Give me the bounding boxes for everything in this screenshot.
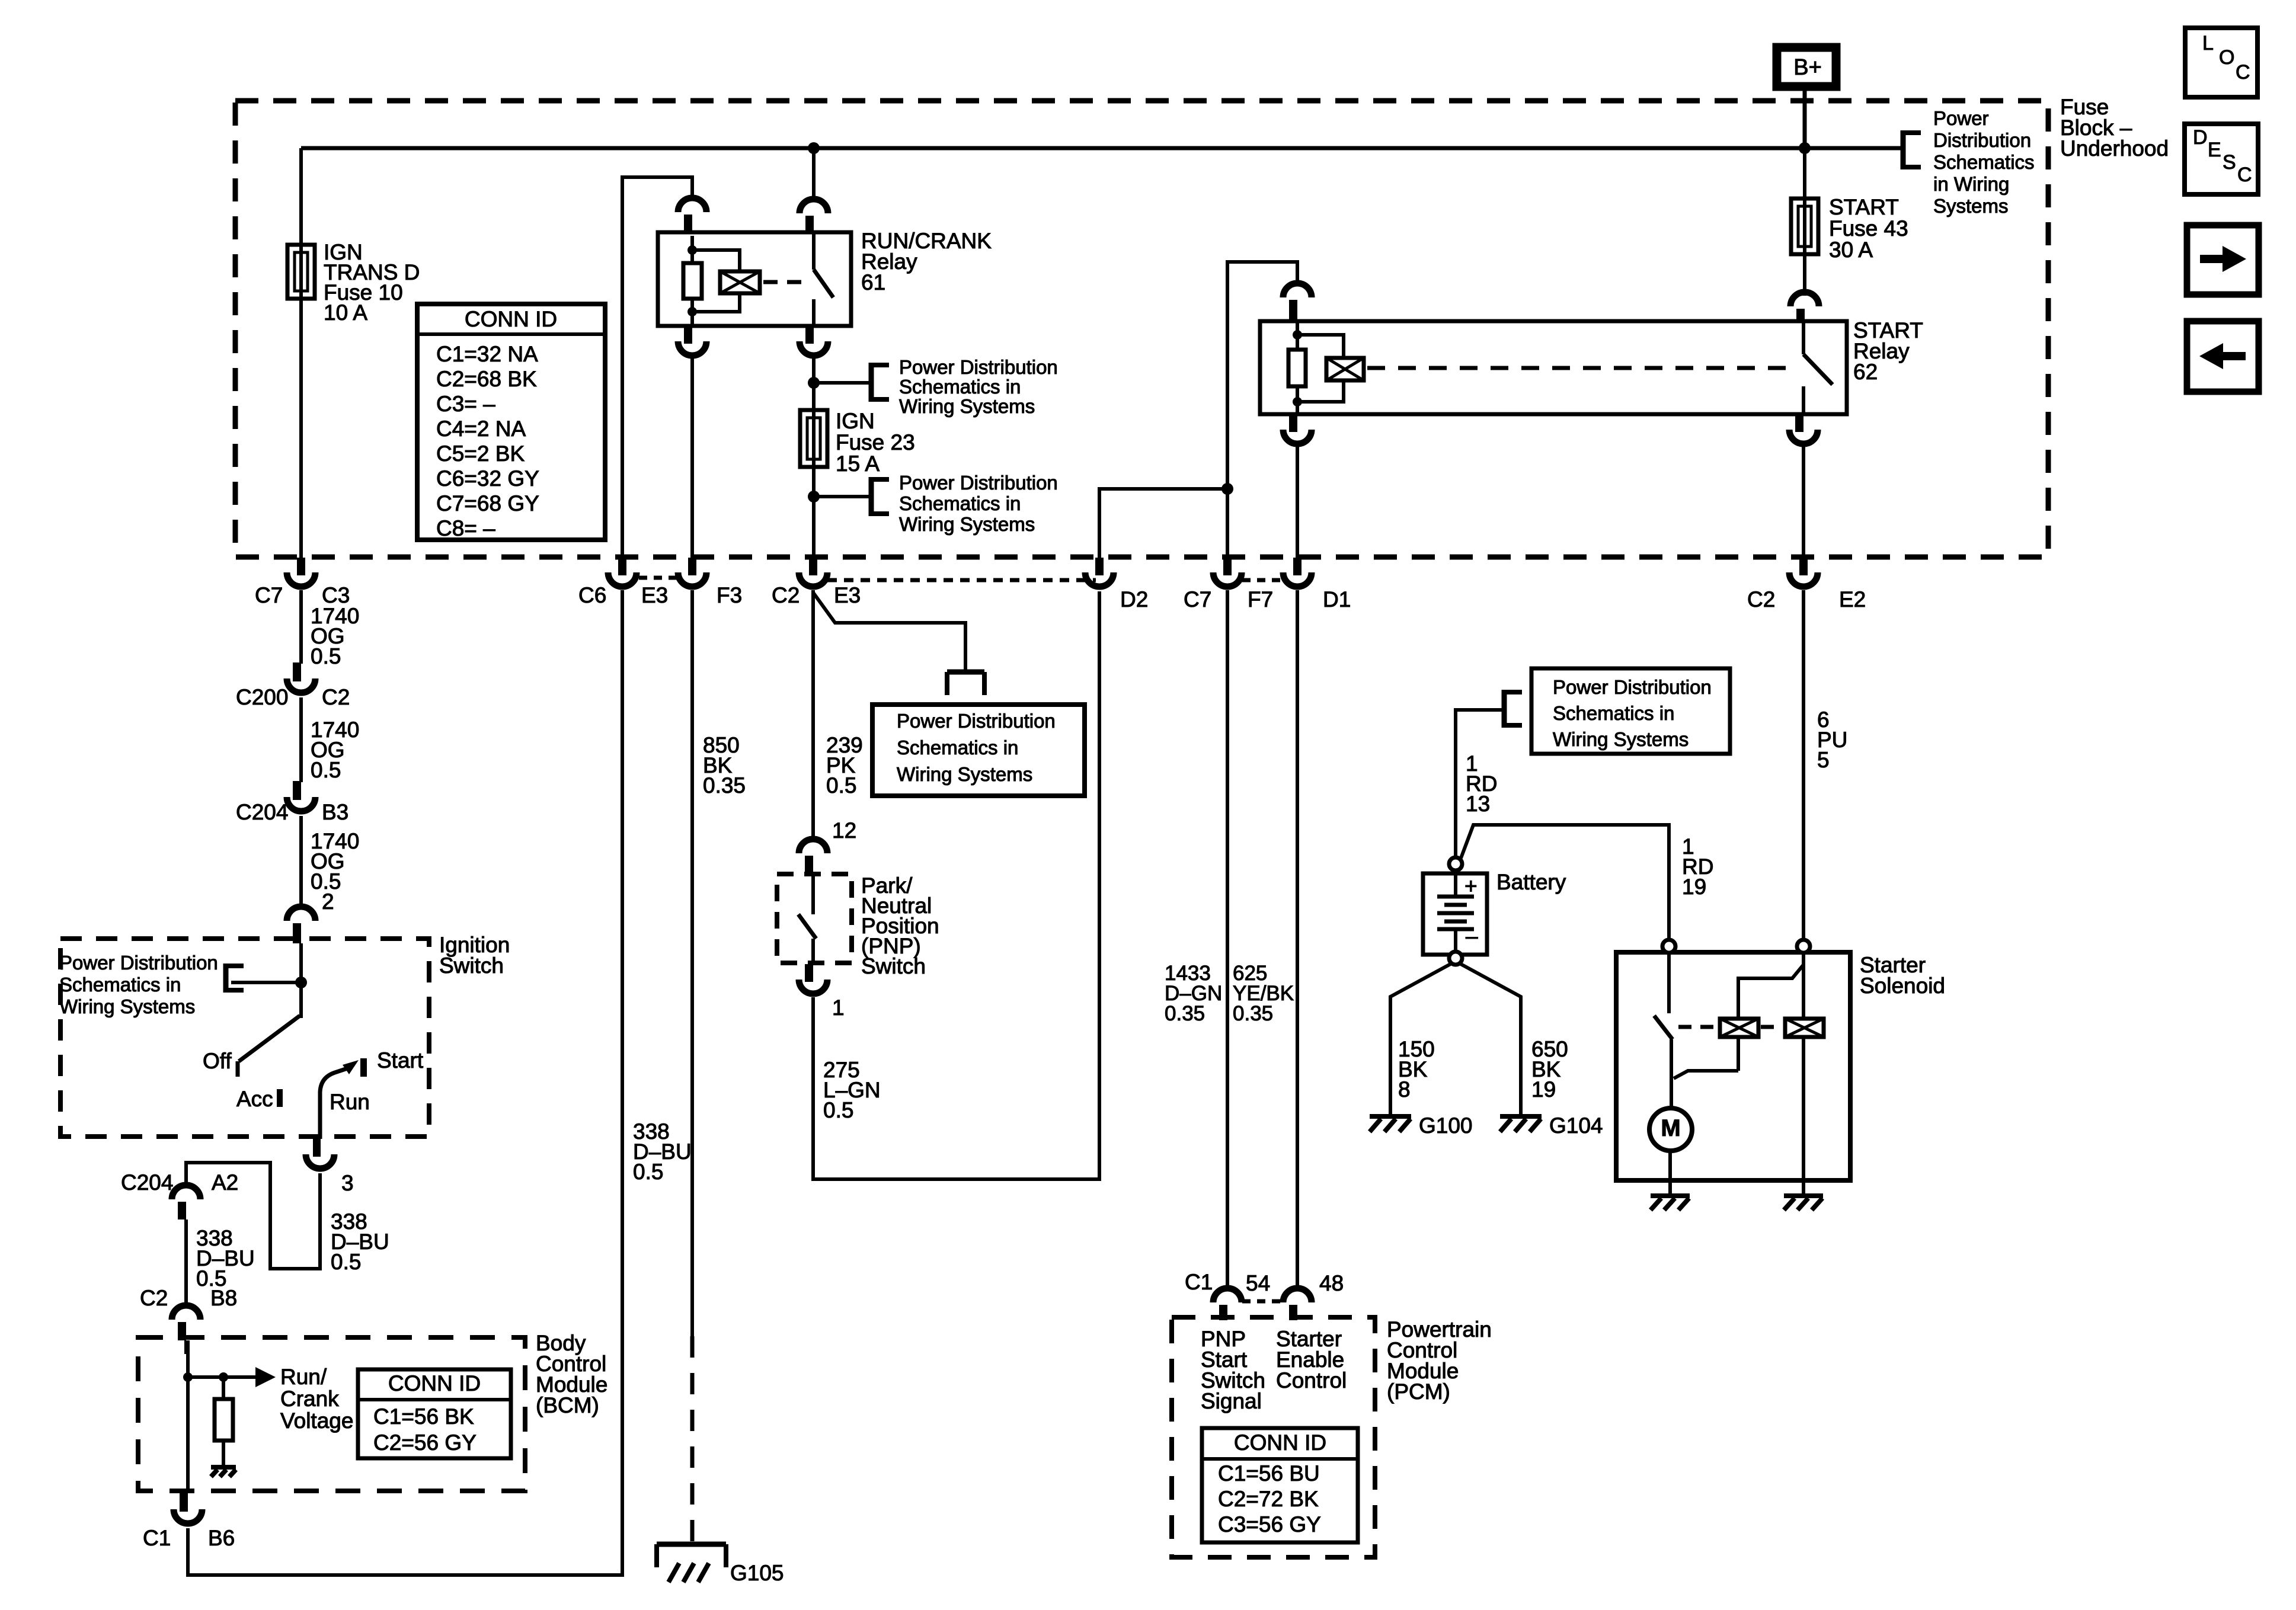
label Starter Enable Control [1276, 1327, 1347, 1393]
svg-text:Schematics in: Schematics in [1553, 702, 1674, 724]
label E3 (row) [641, 583, 668, 607]
ground splice bracket G105 [657, 1544, 726, 1567]
solenoid pull-in winding branch [1738, 965, 1803, 1019]
svg-text:B3: B3 [322, 800, 348, 824]
svg-text:54: 54 [1246, 1271, 1270, 1295]
label F3 (row) [717, 583, 742, 607]
svg-text:CONN ID: CONN ID [388, 1371, 481, 1395]
label 338 D-BU 0.5 (BCM return) [633, 1119, 692, 1184]
label Power Distribution Schematics in Wiring Systems (top right) [1933, 107, 2035, 217]
PNP switch dashed box [777, 874, 852, 963]
PNP switch contacts [798, 875, 816, 963]
label Start [377, 1048, 424, 1073]
connector relay 62 switch pin bottom [1789, 414, 1818, 444]
label Run/ Crank Voltage [280, 1365, 353, 1433]
svg-text:0.35: 0.35 [1165, 1002, 1205, 1025]
label Power Distribution Schematics in Wiring Systems (below fuse 23) [899, 472, 1058, 535]
solenoid switch lower contact link [1674, 1071, 1738, 1078]
label C2 (row 3) [1747, 587, 1775, 612]
label Acc [236, 1087, 273, 1111]
svg-text:Signal: Signal [1201, 1389, 1262, 1413]
svg-text:D1: D1 [1323, 587, 1351, 612]
svg-text:Power Distribution: Power Distribution [897, 710, 1056, 732]
svg-text:S: S [2223, 151, 2236, 174]
svg-text:Wiring Systems: Wiring Systems [1553, 728, 1689, 750]
connector C7/C3 at fuse block [287, 558, 315, 587]
svg-text:C2=72 BK: C2=72 BK [1218, 1487, 1319, 1511]
wire junction to bracket (above fuse 23) [814, 381, 871, 385]
svg-text:Wiring Systems: Wiring Systems [897, 763, 1032, 785]
svg-text:5: 5 [1817, 748, 1830, 772]
svg-text:Wiring Systems: Wiring Systems [59, 996, 195, 1017]
bracket reference Power Distribution (below fuse 23) [871, 477, 889, 516]
label E2 (row) [1839, 587, 1866, 612]
LOC reference box [2185, 28, 2257, 97]
svg-text:1: 1 [832, 996, 845, 1020]
battery box [1423, 873, 1487, 955]
wire C2/E3 to PNP switch [811, 590, 815, 841]
relay 61 coil [720, 271, 760, 293]
svg-text:0.5: 0.5 [823, 1098, 853, 1122]
body control module BCM dashed box [138, 1337, 525, 1491]
wire hook C7/F7 to relay 62 coil [1227, 262, 1297, 489]
connector relay 62 coil pin bottom [1283, 414, 1312, 444]
svg-text:48: 48 [1319, 1271, 1344, 1295]
svg-text:C1=56 BU: C1=56 BU [1218, 1461, 1320, 1486]
forward arrow box [2187, 225, 2259, 295]
svg-text:Fuse 23: Fuse 23 [836, 430, 915, 454]
relay 62 switch [1803, 321, 1833, 414]
wire hook to C6 [622, 177, 692, 558]
svg-text:0.5: 0.5 [633, 1160, 663, 1184]
svg-text:Control: Control [1276, 1368, 1347, 1393]
wire fuse 23 to connector C2 [812, 497, 816, 558]
label Power Distribution Schematics in Wiring Systems (ignition) [59, 952, 218, 1017]
svg-text:Schematics in: Schematics in [897, 737, 1018, 758]
label C3 (row) [322, 583, 350, 607]
connector C204/B3 [287, 781, 315, 811]
label C1 (BCM) [143, 1526, 171, 1550]
connector D1 at fuse block [1283, 558, 1312, 587]
label Park/Neutral Position (PNP) Switch [861, 873, 939, 978]
label Run [330, 1090, 370, 1114]
svg-text:B+: B+ [1793, 55, 1822, 80]
wire C7/F7 1433 D-GN to PCM [1226, 590, 1229, 1291]
relay 61 coil-to-switch dashed link [763, 280, 807, 284]
svg-text:D: D [2193, 126, 2208, 149]
svg-text:C1=56 BK: C1=56 BK [373, 1404, 474, 1429]
label C200 [236, 685, 288, 709]
relay 61 node bottom [687, 307, 697, 316]
connector relay 61 coil pin bottom [678, 326, 706, 356]
label 3 (ignition output) [341, 1171, 354, 1195]
relay 62 coil branch wires [1297, 335, 1344, 402]
label C6 (row) [578, 583, 606, 607]
wire bus to IGN TRANS D fuse [299, 148, 303, 246]
bracket reference Power Distribution (above fuse 23) [871, 363, 889, 402]
connector BCM C1/B6 [174, 1491, 202, 1523]
label G104 [1549, 1113, 1603, 1138]
node junction above fuse 23 [808, 377, 820, 389]
label 275 L-GN 0.5 [823, 1058, 881, 1122]
svg-text:E3: E3 [641, 583, 668, 607]
svg-text:O: O [2219, 46, 2234, 69]
svg-text:C5=2 BK: C5=2 BK [436, 441, 525, 466]
svg-text:C204: C204 [236, 800, 288, 824]
power bus wire [301, 146, 1904, 151]
wire relay 61 switch to fuse 23 [812, 356, 816, 410]
relay 61 switch [814, 233, 833, 326]
svg-text:Underhood: Underhood [2060, 136, 2169, 161]
svg-text:Schematics: Schematics [1933, 151, 2035, 173]
label Powertrain Control Module (PCM) [1387, 1317, 1492, 1404]
svg-text:0.5: 0.5 [826, 773, 856, 798]
relay 62 node top [1293, 330, 1302, 340]
label C7 (row) [255, 583, 283, 607]
svg-text:C2: C2 [772, 583, 800, 607]
svg-text:Off: Off [203, 1049, 232, 1073]
svg-text:(BCM): (BCM) [536, 1393, 599, 1417]
svg-text:C2: C2 [1747, 587, 1775, 612]
node junction ignition feed [295, 977, 307, 988]
ground below solenoid right [1784, 1196, 1823, 1210]
ignition Acc contact tick [277, 1089, 283, 1107]
connector C200/C2 [287, 662, 315, 693]
battery positive terminal [1449, 857, 1462, 870]
relay 61 node top [687, 245, 697, 255]
wire junction to connector C7/F7 [1226, 489, 1229, 558]
svg-text:Run/: Run/ [280, 1365, 327, 1389]
connector C7/F7 at fuse block [1213, 558, 1242, 587]
label START Relay 62 [1853, 318, 1923, 384]
fuse IGN TRANS D Fuse 10 [287, 245, 315, 299]
wire C7/C3 to C200 [299, 590, 303, 664]
connector PNP pin 12 [799, 839, 827, 875]
svg-text:Fuse 43: Fuse 43 [1829, 216, 1908, 241]
wire B+ to bus [1803, 91, 1807, 150]
dotted link PCM 54-48 [1242, 1299, 1281, 1304]
svg-text:Schematics in: Schematics in [59, 974, 181, 996]
B+ power symbol [1777, 47, 1836, 87]
connector ignition switch pin 3 [306, 1138, 334, 1169]
solenoid terminal stud left [1662, 940, 1675, 953]
node BCM junction 1 [183, 1372, 193, 1382]
svg-text:C7=68 GY: C7=68 GY [436, 491, 539, 516]
svg-text:2: 2 [322, 889, 334, 914]
label A2 [212, 1170, 238, 1195]
solenoid switch [1654, 953, 1673, 1108]
ground G105 hatch [669, 1563, 709, 1582]
solenoid pull-in winding [1720, 1019, 1758, 1037]
wire BCM internal feed [186, 1340, 190, 1491]
label Ignition Switch [439, 933, 510, 978]
svg-text:C: C [2236, 61, 2250, 84]
relay 62 node bottom [1293, 397, 1302, 406]
svg-text:C2=68 BK: C2=68 BK [436, 367, 537, 391]
svg-text:0.5: 0.5 [311, 758, 341, 782]
label 6 PU 5 [1817, 708, 1847, 772]
ground G104 [1500, 1116, 1542, 1132]
svg-text:62: 62 [1853, 360, 1878, 384]
connector relay 62 switch pin top [1790, 292, 1819, 322]
svg-text:3: 3 [341, 1171, 354, 1195]
label 850 BK 0.35 [703, 733, 746, 798]
svg-text:C7: C7 [255, 583, 283, 607]
wire relay 62 switch to E2 [1802, 444, 1805, 558]
label START Fuse 43 30A [1829, 195, 1908, 262]
CONN ID table (PCM) [1202, 1428, 1358, 1542]
label 48 [1319, 1271, 1344, 1295]
wire 275 L-GN PNP return to D2 [813, 591, 1099, 1179]
label 1 RD 13 [1466, 751, 1497, 816]
svg-text:in Wiring: in Wiring [1933, 173, 2009, 195]
svg-text:D2: D2 [1120, 587, 1148, 612]
ignition switch dashed box [60, 939, 429, 1137]
svg-text:C4=2 NA: C4=2 NA [436, 417, 526, 441]
label C204 (A2) [121, 1170, 173, 1195]
svg-text:(PCM): (PCM) [1387, 1379, 1450, 1404]
label F7 (row) [1248, 587, 1273, 612]
wire C2/E3 diagonal branch to reference box [813, 593, 965, 672]
Power Distribution Schematics in Wiring Systems box (battery area) [1531, 668, 1730, 754]
svg-text:C200: C200 [236, 685, 288, 709]
svg-text:B8: B8 [210, 1286, 237, 1310]
wire battery to bracket 1 RD 13 [1456, 710, 1504, 857]
label 650 BK 19 [1531, 1037, 1568, 1102]
svg-text:13: 13 [1466, 792, 1490, 816]
label D1 (row) [1323, 587, 1351, 612]
connector C2/E2 at fuse block [1789, 558, 1818, 587]
wire bus junction to relay 61 switch [812, 148, 816, 201]
wire D1 625 YE/BK to PCM [1296, 590, 1299, 1291]
svg-text:30 A: 30 A [1829, 238, 1873, 262]
svg-text:Acc: Acc [236, 1087, 273, 1111]
svg-text:C8= –: C8= – [436, 516, 495, 540]
connector C2/B8 [172, 1305, 200, 1340]
svg-text:G105: G105 [730, 1561, 784, 1585]
wire BCM B6 return to C6/E3 [188, 590, 622, 1575]
connector relay 61 switch pin bottom [800, 326, 828, 356]
wire battery negative to G104 [1460, 964, 1521, 1116]
wire relay 62 coil to D1 [1296, 444, 1299, 558]
connector relay 62 coil pin top [1283, 283, 1312, 321]
label C204 (B3) [236, 800, 288, 824]
solenoid terminal stud right [1797, 940, 1810, 953]
svg-text:Schematics in: Schematics in [899, 376, 1021, 398]
label 338 D-BU 0.5 (right) [331, 1209, 389, 1274]
label C1 (PCM) [1185, 1270, 1213, 1294]
svg-text:CONN ID: CONN ID [1234, 1430, 1326, 1455]
node junction bus / RUN-CRANK relay [808, 142, 820, 154]
svg-text:–: – [1466, 924, 1478, 948]
svg-text:10 A: 10 A [324, 300, 367, 325]
label RUN/CRANK Relay 61 [861, 229, 992, 295]
bracket reference above Power Distribution box (PNP area) [947, 672, 984, 695]
svg-text:IGN: IGN [836, 409, 875, 433]
Power Distribution Schematics in Wiring Systems box (PNP area) [872, 705, 1085, 796]
BCM pull-down resistor [215, 1377, 233, 1467]
svg-text:Crank: Crank [280, 1387, 339, 1411]
battery negative terminal [1449, 952, 1462, 965]
svg-text:E3: E3 [834, 583, 861, 607]
wire C200 to C204 [299, 697, 303, 782]
label G105 [730, 1561, 784, 1585]
wire relay 61 coil to F3 [690, 356, 694, 558]
label Starter Solenoid [1860, 953, 1945, 998]
bracket reference to Power Distribution Schematics (top right) [1903, 130, 1921, 169]
label D2 (row) [1120, 587, 1148, 612]
label Off [203, 1049, 232, 1073]
BCM internal ground [211, 1467, 236, 1477]
svg-text:Battery: Battery [1496, 870, 1566, 894]
dotted link C2/E3 to D2 [827, 578, 1096, 582]
battery plates symbol [1437, 873, 1474, 955]
svg-text:C: C [2237, 164, 2252, 186]
solenoid pull-in winding lower lead [1737, 1037, 1740, 1071]
svg-text:E2: E2 [1839, 587, 1866, 612]
wire motor to ground [1668, 1151, 1672, 1196]
START relay 62 box [1260, 321, 1847, 414]
label B8 [210, 1286, 237, 1310]
powertrain control module PCM dashed box [1172, 1317, 1375, 1557]
svg-text:19: 19 [1531, 1077, 1556, 1102]
wire bus to START fuse 43 [1803, 148, 1806, 200]
svg-text:C6: C6 [578, 583, 606, 607]
svg-text:B6: B6 [208, 1526, 235, 1550]
label 150 BK 8 [1398, 1037, 1435, 1102]
svg-text:Power Distribution: Power Distribution [1553, 676, 1712, 698]
solenoid hold-in winding [1785, 1019, 1824, 1037]
svg-text:C1: C1 [143, 1526, 171, 1550]
solenoid winding dashed links [1678, 1025, 1783, 1029]
svg-text:M: M [1661, 1115, 1680, 1141]
svg-text:Power Distribution: Power Distribution [899, 472, 1058, 494]
svg-text:Wiring Systems: Wiring Systems [899, 395, 1035, 417]
ground below starter motor [1651, 1196, 1690, 1210]
node junction D2 branch [1221, 483, 1233, 495]
svg-text:0.35: 0.35 [1233, 1002, 1273, 1025]
wire C2/B8 to BCM [184, 1340, 188, 1354]
label 239 PK 0.5 [826, 733, 863, 798]
CONN ID table (underhood fuse block) [417, 304, 605, 540]
label 338 D-BU 0.5 (left) [196, 1226, 255, 1291]
label IGN TRANS D Fuse 10 10A [324, 240, 420, 325]
label B6 [208, 1526, 235, 1550]
svg-text:Solenoid: Solenoid [1860, 974, 1945, 998]
label 1740 OG 0.5 (segment 2) [311, 718, 359, 782]
svg-text:C2=56 GY: C2=56 GY [373, 1430, 477, 1455]
svg-text:8: 8 [1398, 1077, 1411, 1102]
connector PCM pin 48 [1283, 1288, 1312, 1320]
svg-text:START: START [1829, 195, 1899, 219]
node BCM junction 2 [219, 1372, 228, 1382]
label C2 (C200) [322, 685, 350, 709]
wire 1 RD 19 battery to solenoid [1461, 825, 1669, 940]
battery minus sign [1466, 924, 1478, 948]
svg-text:E: E [2208, 139, 2221, 161]
fuse block - underhood dashed boundary [235, 101, 2048, 557]
wire junction to bracket (below fuse 23) [814, 495, 871, 498]
svg-text:15 A: 15 A [836, 452, 880, 476]
svg-text:F3: F3 [717, 583, 742, 607]
label C2 (row) [772, 583, 800, 607]
dotted link C6-F3 [639, 576, 682, 580]
svg-text:C204: C204 [121, 1170, 173, 1195]
svg-text:0.35: 0.35 [703, 773, 746, 798]
svg-text:+: + [1464, 874, 1478, 898]
svg-text:C2: C2 [322, 685, 350, 709]
label 1740 OG 0.5 (segment 1) [311, 604, 359, 668]
fuse IGN Fuse 23 [800, 410, 827, 497]
svg-text:A2: A2 [212, 1170, 238, 1195]
wire fuse 10 to connector C7 [299, 299, 303, 558]
label C7 (row 2) [1184, 587, 1211, 612]
svg-text:Systems: Systems [1933, 195, 2009, 217]
wire F3 850 BK [690, 590, 694, 1336]
RUN/CRANK relay 61 box [658, 232, 851, 326]
connector ignition switch pin 2 [287, 907, 315, 943]
label Battery [1496, 870, 1566, 894]
label 54 [1246, 1271, 1270, 1295]
svg-text:C1=32 NA: C1=32 NA [436, 342, 538, 366]
connector PCM C1 pin 54 [1213, 1288, 1242, 1320]
BCM internal branch wire with arrow Run/Crank Voltage [188, 1367, 276, 1387]
wire E2 6 PU to solenoid [1802, 590, 1805, 940]
connector PNP pin 1 [799, 964, 827, 994]
starter solenoid box [1616, 952, 1850, 1180]
wire C204 to ignition switch [299, 816, 303, 909]
svg-text:Voltage: Voltage [280, 1409, 353, 1433]
label E3 (row 2) [834, 583, 861, 607]
svg-text:L: L [2202, 32, 2214, 55]
svg-text:Power Distribution: Power Distribution [899, 356, 1058, 378]
svg-text:C2: C2 [140, 1286, 168, 1310]
wire 850 BK dashed continuation [690, 1336, 695, 1544]
svg-text:Power Distribution: Power Distribution [59, 952, 218, 974]
svg-text:C3=56 GY: C3=56 GY [1218, 1512, 1321, 1537]
label B3 [322, 800, 348, 824]
node junction bus / B+ drop [1799, 142, 1811, 154]
svg-text:61: 61 [861, 270, 885, 295]
wire fuse 43 to relay 62 [1803, 254, 1806, 296]
svg-text:Wiring Systems: Wiring Systems [899, 513, 1035, 535]
label 12 [832, 818, 856, 843]
label Fuse Block - Underhood [2060, 95, 2169, 161]
svg-text:F7: F7 [1248, 587, 1273, 612]
label 1433 D-GN 0.35 [1165, 962, 1222, 1025]
svg-text:Schematics in: Schematics in [899, 492, 1021, 514]
label Body Control Module (BCM) [536, 1331, 607, 1417]
label 1740 OG 0.5 2 (segment 3) [311, 829, 359, 914]
battery plus sign [1464, 874, 1478, 898]
bracket reference (battery area) [1504, 690, 1522, 728]
label C2 (B8) [140, 1286, 168, 1310]
label 1 RD 19 [1682, 834, 1713, 899]
label G100 [1419, 1113, 1473, 1138]
wire ignition 3 jog to C204/A2 [186, 1163, 320, 1269]
node junction below fuse 23 [808, 491, 820, 502]
bracket reference Power Distribution (ignition) [226, 964, 244, 993]
svg-text:Switch: Switch [861, 954, 926, 978]
CONN ID table (BCM) [358, 1369, 511, 1458]
wire D2 branch [1099, 489, 1227, 558]
label Power Distribution Schematics in Wiring Systems (above fuse 23) [899, 356, 1058, 417]
connector C6/E3 at fuse block [608, 558, 637, 587]
relay 61 coil branch wires [692, 250, 740, 312]
dotted link C7/F7 to D1 [1242, 578, 1281, 582]
wire ignition feed [299, 943, 303, 1018]
label IGN Fuse 23 15A [836, 409, 915, 476]
